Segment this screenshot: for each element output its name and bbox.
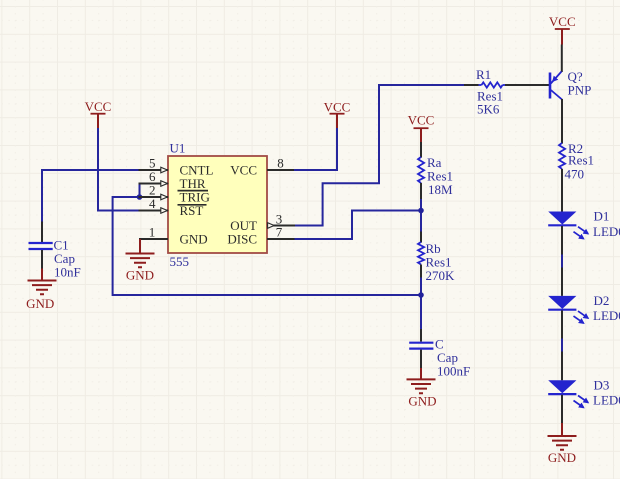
power VCC4 top right: [549, 14, 576, 45]
node Ra-Rb-DISC junction: [418, 208, 424, 214]
svg-text:10nF: 10nF: [54, 265, 81, 280]
svg-text:GND: GND: [180, 232, 208, 247]
wire CNTL pin5 to C1: [42, 170, 141, 222]
op-amp U1 555 timer body: [168, 141, 267, 270]
svg-text:1: 1: [149, 225, 156, 240]
svg-text:VCC: VCC: [408, 113, 435, 128]
wire VCC1 to RST pin4: [98, 128, 141, 211]
svg-text:D2: D2: [594, 293, 610, 308]
wire Ra bottom to node: [420, 199, 422, 232]
svg-text:4: 4: [149, 196, 156, 211]
wire OUT pin3 to R1: [295, 85, 464, 226]
wire LED rail D1-D2: [561, 255, 563, 268]
svg-text:LED0: LED0: [593, 393, 620, 408]
svg-text:8: 8: [277, 156, 284, 171]
svg-text:R1: R1: [476, 67, 491, 82]
resistor R2: [559, 141, 594, 212]
diode D2 LED: [548, 268, 620, 339]
svg-text:Res1: Res1: [568, 152, 594, 167]
svg-text:100nF: 100nF: [437, 364, 470, 379]
U1 pin 6 THR: [139, 169, 206, 191]
svg-text:GND: GND: [548, 450, 576, 465]
wire VCC pin8 to VCC2: [294, 128, 337, 171]
ground GND4 under D3: [548, 423, 577, 465]
node THR-TRIG junction: [137, 194, 143, 200]
power VCC1: [85, 99, 112, 128]
svg-text:VCC: VCC: [324, 100, 351, 115]
power VCC2: [324, 100, 351, 129]
svg-text:DISC: DISC: [227, 232, 257, 247]
resistor Ra: [418, 142, 453, 199]
ground GND1 under C1: [26, 269, 56, 312]
svg-text:PNP: PNP: [568, 82, 592, 97]
svg-text:GND: GND: [126, 267, 154, 282]
svg-text:VCC: VCC: [549, 14, 576, 29]
svg-text:18M: 18M: [428, 182, 453, 197]
wire TRIG pin2 to Rb/C node: [113, 197, 419, 295]
transistor Q1 PNP: [550, 45, 591, 144]
svg-text:VCC: VCC: [85, 99, 112, 114]
wire Rb bottom to node: [420, 278, 422, 330]
U1 pin 8 VCC: [230, 156, 294, 178]
svg-text:U1: U1: [170, 141, 186, 156]
U1 pin 7 DISC: [227, 225, 294, 247]
U1 pin 5 CNTL: [139, 156, 214, 178]
svg-text:470: 470: [565, 166, 585, 181]
svg-text:555: 555: [170, 254, 190, 269]
U1 pin 3 OUT: [230, 212, 295, 234]
svg-text:5K6: 5K6: [477, 102, 500, 117]
resistor R1: [464, 67, 549, 117]
svg-text:GND: GND: [26, 296, 54, 311]
svg-text:D3: D3: [594, 377, 610, 392]
wire THR pin6 down to TRIG node: [140, 184, 142, 198]
svg-text:GND: GND: [408, 393, 436, 408]
capacitor C: [409, 329, 470, 379]
ground GND2 under U1 pin1: [126, 239, 155, 282]
U1 pin 2 TRIG: [139, 183, 210, 205]
ground GND3 under C: [407, 368, 437, 408]
svg-text:LED0: LED0: [593, 224, 620, 239]
svg-text:270K: 270K: [426, 268, 456, 283]
svg-text:7: 7: [276, 225, 283, 240]
node Rb-C-TRIG junction: [418, 292, 424, 298]
svg-text:RST: RST: [180, 203, 204, 218]
U1 pin 4 RST: [139, 196, 207, 218]
U1 pin 1 GND: [139, 225, 208, 247]
svg-text:D1: D1: [594, 209, 610, 224]
capacitor C1: [29, 222, 81, 280]
svg-text:VCC: VCC: [230, 163, 257, 178]
resistor Rb: [418, 232, 455, 283]
wire LED rail D2-D3: [561, 339, 563, 352]
wire DISC pin7 to Ra/Rb node: [295, 211, 420, 240]
diode D3 LED: [548, 352, 620, 424]
diode D1 LED: [548, 209, 620, 255]
power VCC3 above Ra: [408, 113, 435, 143]
svg-text:LED0: LED0: [593, 308, 620, 323]
